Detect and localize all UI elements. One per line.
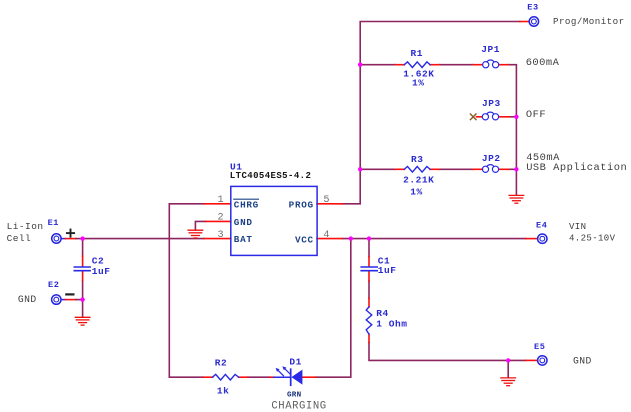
- LED D1 triangle: [291, 370, 302, 385]
- ground at E5: [501, 378, 516, 386]
- resistor R3 body: [404, 167, 430, 173]
- ground at IC pin 2: [188, 230, 203, 238]
- svg-text:VIN: VIN: [569, 222, 586, 232]
- pin 5 stub: [317, 203, 342, 205]
- LED D1 terminals: [270, 376, 274, 378]
- LED D1 emission arrow 2: [285, 369, 291, 375]
- junction dot R3 row riser: [358, 167, 362, 171]
- svg-text:Li-Ion: Li-Ion: [7, 221, 44, 232]
- terminal E4 stub: [526, 238, 538, 240]
- svg-text:R2: R2: [215, 357, 228, 368]
- wire BAT row: [83, 238, 204, 240]
- jumper JP1 terminals: [473, 64, 483, 66]
- svg-text:GND: GND: [234, 217, 253, 228]
- wire R4 to E5 row: [369, 343, 526, 361]
- terminal E5: [538, 356, 547, 365]
- svg-text:2.21K: 2.21K: [403, 174, 434, 185]
- svg-text:5: 5: [323, 195, 329, 206]
- terminal E2 stub: [62, 299, 66, 301]
- svg-text:LTC4054ES5-4.2: LTC4054ES5-4.2: [230, 171, 311, 181]
- jumper JP2: [482, 166, 488, 172]
- pin 2 stub: [206, 220, 231, 222]
- resistor R2 terminals: [203, 376, 212, 378]
- terminal E1 stub: [62, 238, 66, 240]
- svg-text:3: 3: [217, 230, 223, 241]
- jumper JP1: [483, 62, 489, 68]
- svg-text:E3: E3: [527, 2, 538, 12]
- capacitor C2 plates: [74, 266, 90, 268]
- svg-text:VCC: VCC: [295, 234, 314, 245]
- svg-text:R1: R1: [411, 48, 424, 59]
- wire R2 to D1 segment: [248, 376, 270, 378]
- capacitor C1 plates: [361, 266, 377, 268]
- junction dot VCC-D1 riser: [349, 236, 353, 240]
- svg-text:1uF: 1uF: [92, 266, 111, 277]
- no-connect X at JP3: [470, 114, 476, 120]
- wire IC GND pin bend: [195, 221, 205, 230]
- wire C2 column top: [82, 239, 84, 257]
- ground at JP column: [509, 195, 524, 203]
- svg-text:1 Ohm: 1 Ohm: [376, 319, 407, 330]
- svg-text:GND: GND: [573, 355, 592, 366]
- svg-text:JP1: JP1: [481, 44, 500, 55]
- wire E2 ground stem: [82, 300, 84, 317]
- capacitor C1 terminals: [368, 257, 370, 267]
- svg-text:4.25-10V: 4.25-10V: [569, 233, 616, 243]
- svg-text:1k: 1k: [217, 385, 230, 396]
- resistor R4 body: [366, 307, 372, 334]
- wire C1 to R4 segment: [368, 281, 370, 298]
- wire VCC row: [342, 238, 525, 240]
- junction dot E5 ground: [506, 358, 510, 362]
- svg-text:CHARGING: CHARGING: [271, 401, 326, 412]
- svg-text:E4: E4: [536, 220, 547, 230]
- resistor R4 terminals: [368, 298, 370, 307]
- pin 3 stub: [204, 238, 231, 240]
- svg-text:R4: R4: [376, 308, 389, 319]
- resistor R1 body: [404, 62, 430, 68]
- terminal E5 stub: [526, 359, 538, 361]
- wire R1 row left segment: [360, 64, 395, 66]
- terminal E3 stub: [520, 21, 529, 23]
- svg-text:Cell: Cell: [7, 233, 32, 244]
- svg-text:D1: D1: [289, 357, 302, 368]
- junction dot E1 row: [80, 236, 84, 240]
- junction dot E2 row: [80, 297, 84, 301]
- LED D1 emission arrow 1: [278, 370, 284, 376]
- svg-text:BAT: BAT: [234, 234, 253, 245]
- svg-text:PROG: PROG: [289, 199, 314, 210]
- capacitor C2 terminals: [82, 256, 84, 266]
- LED D1 lead: [274, 376, 291, 378]
- svg-text:1uF: 1uF: [378, 265, 397, 276]
- junction dot VCC-C1 column: [367, 236, 371, 240]
- wire R3 to JP2 segment: [439, 168, 473, 170]
- svg-text:CHRG: CHRG: [234, 199, 259, 210]
- svg-text:1%: 1%: [410, 186, 423, 197]
- terminal E3: [529, 17, 538, 26]
- svg-text:Prog/Monitor: Prog/Monitor: [553, 16, 625, 27]
- svg-text:R3: R3: [411, 154, 424, 165]
- svg-text:USB Application: USB Application: [526, 162, 627, 174]
- wire JP3 to column: [509, 116, 516, 118]
- junction dot JP2 column: [514, 167, 518, 171]
- jumper JP3: [482, 114, 488, 120]
- wire E5 ground stem: [507, 360, 509, 377]
- svg-text:600mA: 600mA: [526, 57, 560, 69]
- svg-text:JP2: JP2: [482, 153, 501, 164]
- battery minus mark: [66, 293, 73, 295]
- wire C2 column bottom: [82, 281, 84, 300]
- ground below E2: [75, 317, 90, 325]
- svg-text:GRN: GRN: [287, 392, 302, 400]
- svg-text:E2: E2: [48, 280, 59, 290]
- svg-text:1%: 1%: [412, 78, 425, 89]
- svg-text:2: 2: [217, 213, 223, 224]
- battery plus mark: [67, 230, 74, 237]
- pin 4 stub: [317, 238, 342, 240]
- svg-text:E5: E5: [534, 342, 545, 352]
- svg-text:E1: E1: [48, 218, 59, 228]
- svg-text:JP3: JP3: [482, 98, 501, 109]
- jumper JP2 terminals: [473, 168, 483, 170]
- terminal E1: [52, 234, 61, 243]
- wire R1 to JP1 segment: [439, 64, 473, 66]
- svg-text:4: 4: [323, 230, 329, 241]
- wire D1 to VCC riser: [316, 239, 351, 378]
- pin 1 stub: [204, 203, 231, 205]
- terminal E4: [538, 234, 547, 243]
- wire JP2 to column: [509, 168, 517, 170]
- wire C1 column top: [368, 239, 370, 257]
- jumper JP3 terminals: [477, 116, 483, 118]
- svg-text:1: 1: [217, 195, 223, 206]
- wire PROG net: pin5 to vertical riser: [342, 22, 519, 204]
- terminal E2: [52, 295, 61, 304]
- resistor R3 terminals: [395, 168, 404, 170]
- LED D1 cathode bar: [290, 369, 292, 385]
- svg-text:OFF: OFF: [526, 109, 546, 121]
- wire R3 row left segment: [360, 168, 395, 170]
- junction dot R1 row riser: [358, 62, 362, 66]
- resistor R1 terminals: [395, 64, 404, 66]
- wire JP column vertical: [508, 65, 516, 195]
- resistor R2 body: [213, 374, 239, 380]
- junction dot JP3 column: [514, 115, 518, 119]
- wire CHRG net left vertical: [169, 204, 204, 377]
- CHRG overline: [234, 198, 259, 200]
- op-amp U1 body (IC box): [231, 186, 317, 255]
- svg-text:GND: GND: [18, 294, 37, 305]
